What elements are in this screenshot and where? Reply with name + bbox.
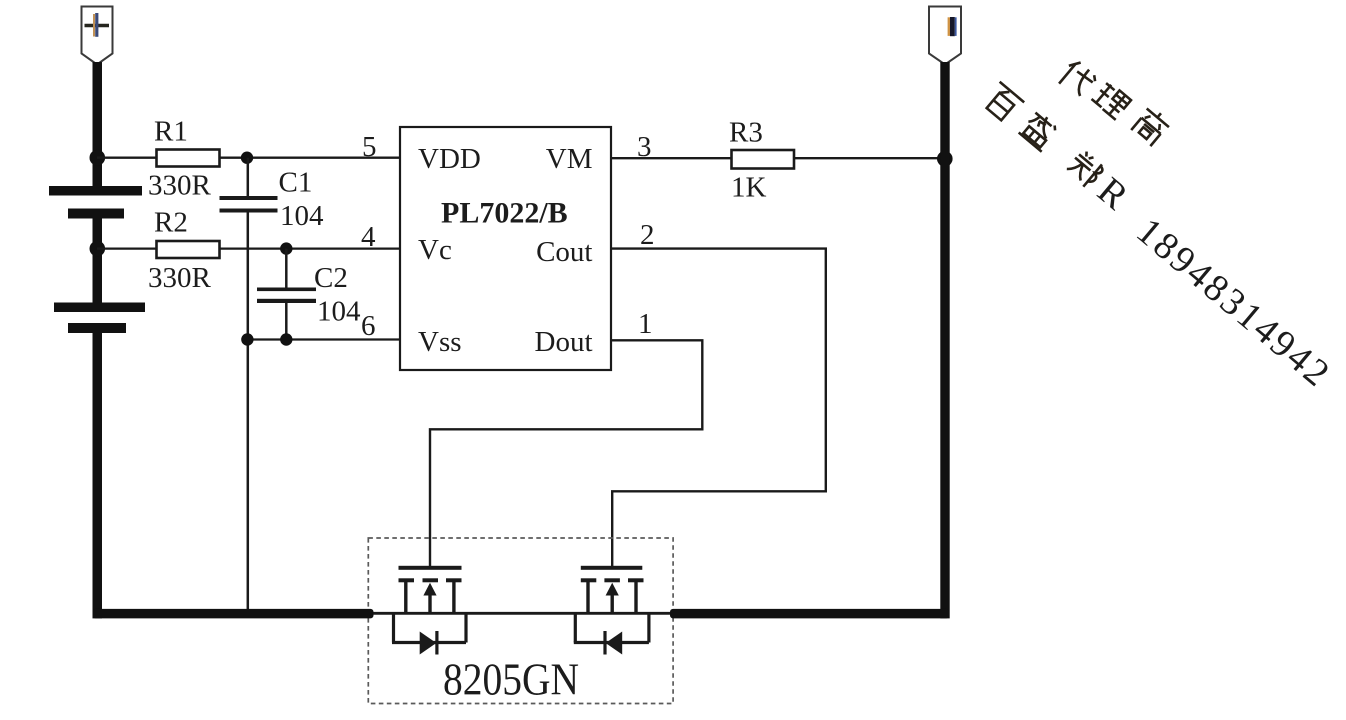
wire B+ vertical thick (93, 62, 103, 190)
resistor R1 (157, 150, 220, 167)
wire pin5 row (97, 157, 157, 159)
diode D1 (body diode Q1) (392, 612, 466, 655)
wire B- vertical thick (940, 62, 949, 618)
resistor R2 (157, 241, 220, 258)
capacitor C2 (257, 288, 316, 292)
svg-text:PL7022/B: PL7022/B (441, 197, 568, 230)
node VSS row C2 (280, 333, 292, 345)
svg-text:R1: R1 (154, 116, 188, 148)
terminal B+ (82, 7, 113, 65)
svg-text:2: 2 (640, 219, 655, 251)
watermark line2: 盛 (1019, 110, 1061, 152)
wire pin3 row (611, 157, 732, 159)
svg-text:C1: C1 (279, 167, 313, 199)
node C1 top (241, 152, 253, 164)
svg-text:R2: R2 (154, 207, 188, 239)
svg-text:8205GN: 8205GN (443, 655, 579, 705)
svg-text:4: 4 (361, 221, 376, 253)
node VSS row left (241, 333, 253, 345)
svg-text:1: 1 (638, 308, 653, 340)
svg-text:C2: C2 (314, 262, 348, 294)
wire source rail thin (371, 612, 671, 615)
watermark char 商 (1130, 104, 1173, 147)
wire B- rail thick left (93, 609, 374, 619)
watermark char 理 (1091, 80, 1132, 120)
svg-text:5: 5 (362, 131, 377, 163)
svg-text:Cout: Cout (536, 236, 592, 268)
node battery VDD row (90, 150, 106, 166)
resistor R3 (732, 150, 795, 169)
op-amp U1 PL7022/B box (400, 127, 611, 370)
node battery VC row (90, 241, 106, 257)
svg-text:330R: 330R (148, 170, 212, 202)
wire pin1 route (430, 340, 702, 567)
diode D2 (body diode Q2) (574, 612, 649, 655)
svg-text:104: 104 (317, 296, 361, 328)
node B- junction (937, 151, 953, 167)
transistor Q1 (399, 566, 462, 614)
svg-text:VM: VM (546, 143, 593, 175)
wire C1 column (247, 158, 250, 197)
svg-text:VDD: VDD (418, 143, 481, 175)
svg-text:Vss: Vss (418, 326, 462, 358)
battery B1 cell 1 (49, 186, 142, 196)
watermark line2: 郑 (1064, 148, 1105, 189)
capacitor C1 (220, 196, 278, 200)
svg-text:330R: 330R (148, 262, 212, 294)
wire B- rail thick right (670, 609, 949, 619)
wire pin2 route (611, 249, 826, 567)
svg-text:Vc: Vc (418, 234, 452, 266)
wire pin6 row (246, 338, 400, 340)
svg-text:Dout: Dout (535, 326, 593, 358)
wire C2 column (285, 249, 288, 288)
wire pin4 row (97, 247, 157, 249)
svg-text:104: 104 (280, 200, 324, 232)
module 8205GN dashed box (368, 538, 673, 704)
transistor Q2 (581, 566, 644, 614)
battery B1 cell 2 (54, 303, 145, 313)
watermark agent text (974, 21, 1346, 397)
node C2 top (280, 242, 292, 254)
svg-text:18948314942: 18948314942 (1128, 210, 1339, 396)
terminal B- (929, 7, 961, 65)
svg-text:6: 6 (361, 310, 376, 342)
svg-text:1K: 1K (731, 172, 767, 204)
watermark line2: 百 (981, 82, 1024, 124)
watermark char 代 (1056, 58, 1098, 100)
svg-text:R3: R3 (729, 117, 763, 149)
